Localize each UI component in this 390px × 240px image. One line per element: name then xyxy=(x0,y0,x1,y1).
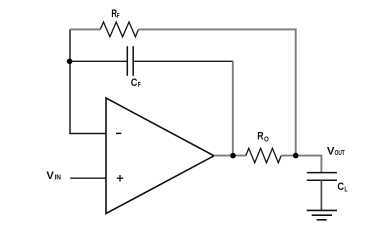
wire: non-inverting input stub xyxy=(70,177,106,179)
svg-text:O: O xyxy=(264,134,269,143)
resistor RO xyxy=(246,148,281,163)
wire: CF horizontal right lead xyxy=(133,60,233,62)
node: junction dot output/CF xyxy=(230,153,236,159)
ground xyxy=(307,210,337,219)
wire: CF return vertical xyxy=(232,61,234,156)
op-amp U1 xyxy=(106,98,214,214)
wire: left vertical feedback bus xyxy=(69,29,71,133)
svg-text:IN: IN xyxy=(55,172,62,181)
node: junction dot output/RF xyxy=(293,153,299,159)
capacitor CL xyxy=(307,173,337,181)
wire: CL to ground vertical xyxy=(320,180,322,210)
capacitor CF xyxy=(127,46,133,76)
node: junction dot at inverting bus / CF xyxy=(67,59,73,65)
svg-text:V: V xyxy=(46,170,54,182)
svg-text:R: R xyxy=(257,131,263,143)
svg-text:F: F xyxy=(117,11,120,20)
svg-text:C: C xyxy=(131,77,138,89)
op-amp plus sign xyxy=(117,175,123,181)
op-amp minus sign xyxy=(116,132,121,134)
wire: RF return vertical xyxy=(295,29,297,156)
wire: inverting input stub xyxy=(69,133,106,135)
wire: output horizontal xyxy=(214,155,246,157)
wire: top horizontal (RF) right lead xyxy=(139,28,297,30)
resistor RF xyxy=(100,22,138,37)
svg-text:C: C xyxy=(337,181,344,193)
wire: CF horizontal left lead xyxy=(70,60,127,62)
wire: output right lead to VOUT xyxy=(281,156,321,173)
wire: top horizontal (RF) left lead xyxy=(70,28,100,30)
svg-text:L: L xyxy=(344,184,347,193)
svg-text:F: F xyxy=(138,80,141,89)
svg-text:OUT: OUT xyxy=(335,148,345,157)
